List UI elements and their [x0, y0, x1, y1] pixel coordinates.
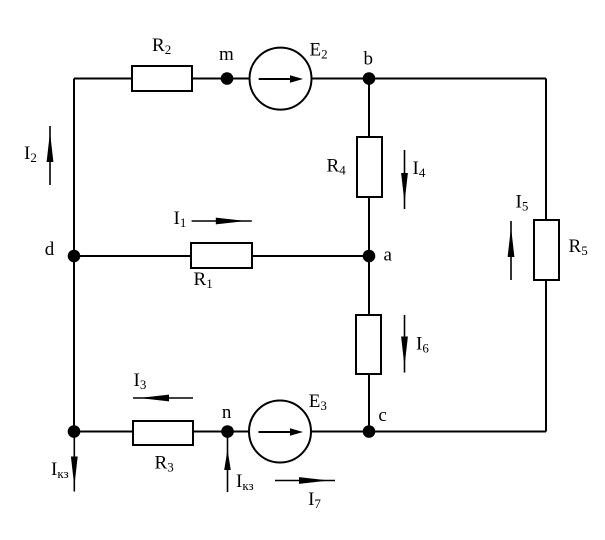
- svg-text:n: n: [222, 402, 232, 423]
- svg-text:c: c: [378, 405, 386, 426]
- svg-text:a: a: [384, 245, 393, 266]
- svg-text:b: b: [364, 49, 374, 70]
- svg-text:m: m: [219, 44, 234, 65]
- svg-text:d: d: [45, 239, 55, 260]
